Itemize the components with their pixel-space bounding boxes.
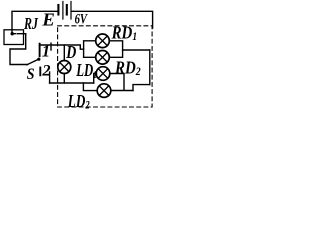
svg-text:E: E — [41, 10, 54, 30]
dashed enclosure box — [58, 26, 153, 107]
svg-text:D: D — [65, 44, 76, 63]
lamp RD1 circle — [96, 34, 110, 48]
battery E plate tall thin 1 — [62, 2, 64, 20]
switch lever tip dot — [37, 58, 40, 61]
wire from contact 2 to lamp pair 2 feed — [50, 82, 94, 84]
contact 1 bar — [39, 44, 41, 57]
contact 2 tick — [39, 68, 41, 76]
lamp RD2 circle — [96, 67, 110, 81]
wire top-right from battery to right edge then down — [72, 11, 153, 28]
relay armature bar — [12, 33, 26, 35]
lamp LD1 cross — [98, 53, 108, 63]
node tee down to lamp D — [63, 45, 65, 61]
lamp D cross — [60, 62, 69, 71]
right junction bracket of lamps RD2 LD2 — [110, 74, 133, 91]
svg-text:6V: 6V — [75, 10, 88, 27]
contact 2 post wire down — [49, 72, 51, 83]
relay RJ box — [4, 30, 24, 45]
wire lamp D bottom lead — [63, 74, 65, 84]
right junction bracket of lamps RD1 LD1 — [109, 41, 122, 58]
wire from relay down-left-down to switch pivot — [10, 34, 28, 65]
lamp D circle — [58, 61, 71, 74]
wire top-left from relay to battery — [12, 11, 57, 32]
svg-text:RJ: RJ — [23, 15, 38, 33]
svg-text:2: 2 — [41, 60, 50, 79]
contact 1 post tick — [50, 43, 52, 50]
lamp LD2 cross — [99, 86, 109, 96]
lamp LD1 circle — [96, 51, 110, 65]
lamp LD2 circle — [97, 84, 111, 98]
svg-text:1: 1 — [42, 41, 50, 60]
left junction bracket of lamps RD1 LD1 — [84, 41, 96, 58]
lamp RD2 cross — [98, 69, 108, 79]
wire output of pair 1 — [123, 49, 150, 51]
left junction bracket of lamps RD2 LD2 — [83, 74, 97, 91]
wire output of pair 2 (jog up from lamp LD2 lead) — [133, 85, 150, 91]
lamp RD1 cross — [98, 36, 108, 46]
wire from contact 1 to lamp pair 1 feed — [40, 45, 84, 49]
relay contact dot — [11, 32, 14, 35]
svg-text:S: S — [27, 66, 35, 83]
switch S lever — [27, 59, 39, 64]
battery E plate short thick 1 — [57, 5, 59, 15]
battery E plate tall thin 2 — [70, 2, 72, 20]
wire right connector between pair outputs — [149, 50, 151, 85]
battery E plate short thick 2 — [66, 5, 68, 15]
